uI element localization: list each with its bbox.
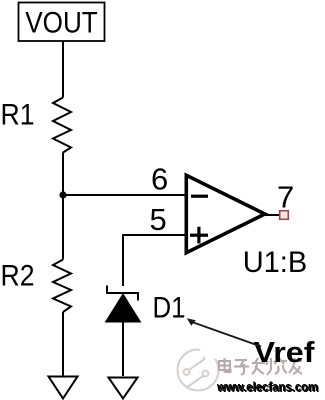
svg-text:Vref: Vref [254,337,315,369]
svg-text:R1: R1 [1,98,35,131]
svg-text:VOUT: VOUT [25,7,98,40]
svg-text:7: 7 [277,180,294,215]
svg-text:D1: D1 [153,291,186,324]
svg-text:R2: R2 [1,259,35,292]
svg-text:www.elecfans.com: www.elecfans.com [216,379,318,394]
svg-text:6: 6 [151,162,168,197]
svg-text:U1:B: U1:B [243,246,308,279]
svg-text:5: 5 [150,202,167,237]
